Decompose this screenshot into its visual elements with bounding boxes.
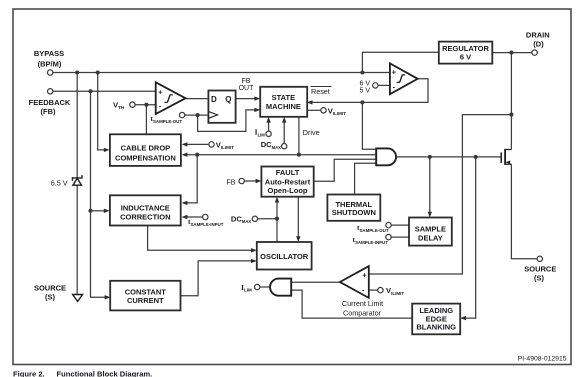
node reset branch [360, 100, 364, 104]
svg-text:6 V: 6 V [460, 52, 471, 61]
svg-text:FB: FB [226, 177, 235, 186]
wire Drive down from state machine [298, 116, 300, 154]
terminal Ilim at SM [266, 131, 271, 136]
terminal BYPASS [48, 70, 53, 75]
wires sample delay terminals [391, 225, 409, 237]
flip-flop labels and clock symbol [211, 95, 232, 104]
terminal t sample-input at sample delay [386, 234, 391, 239]
wire drain down to mosfet [510, 53, 512, 150]
svg-text:Reset: Reset [311, 87, 330, 96]
label FEEDBACK (FB) [29, 98, 71, 116]
svg-text:PI-4908-012915: PI-4908-012915 [518, 356, 567, 363]
block SAMPLE DELAY [409, 218, 452, 246]
arrow into oscillator left lower [251, 259, 257, 263]
svg-text:6 V: 6 V [359, 80, 370, 87]
arrow into CDC right drive [182, 153, 188, 157]
terminal 6V5V [373, 83, 378, 88]
svg-text:SHUTDOWN: SHUTDOWN [332, 208, 376, 217]
svg-text:CORRECTION: CORRECTION [120, 212, 170, 221]
wire gate line down to sample delay [429, 157, 431, 215]
arrow into IC right lower [182, 215, 188, 219]
wire gate line down to LEB [464, 157, 476, 318]
wire to regulator [362, 52, 438, 72]
wire FAULT out to AND in3 [314, 159, 376, 181]
label DRAIN (D) [526, 31, 550, 49]
label SOURCE (S) right [524, 265, 556, 283]
block LEADING EDGE BLANKING [412, 304, 460, 335]
svg-text:OUT: OUT [239, 85, 255, 92]
svg-text:BLANKING: BLANKING [416, 323, 456, 332]
wire FB into FAULT [244, 180, 258, 182]
wire Ilim up into state machine [268, 120, 270, 131]
wire left rail C (bypass to cable drop comp) [98, 73, 106, 150]
svg-text:Figure 2.: Figure 2. [13, 369, 45, 377]
arrow into sample delay top [428, 212, 432, 218]
wire rail B branch to inductance correction [91, 210, 107, 212]
arrow into CDC right Vilimit [182, 142, 188, 146]
node gate-sampledelay [428, 155, 432, 159]
wire reset net from comparator2 [310, 79, 428, 103]
wire 6V 5V into comparator2 [378, 84, 390, 86]
svg-text:Comparator: Comparator [343, 308, 382, 317]
svg-text:+: + [362, 270, 367, 279]
wire BYPASS rail [53, 72, 390, 74]
node bypass-regulator branch [360, 70, 364, 74]
svg-text:CURRENT: CURRENT [127, 296, 164, 305]
node gate-LEB [474, 155, 478, 159]
wire clock net to state machine lower input [198, 110, 257, 131]
arrow into CDC left [104, 148, 110, 152]
wire Vth input [135, 104, 156, 106]
terminal Vth [130, 102, 135, 107]
wire FEEDBACK to comparator [53, 90, 156, 92]
terminal circles [48, 50, 543, 293]
block THERMAL SHUTDOWN [327, 195, 380, 221]
arrowheads [104, 96, 466, 320]
svg-text:Drive: Drive [303, 128, 320, 137]
wire small AND output to Ilim terminal [260, 286, 270, 288]
svg-text:(FB): (FB) [41, 107, 56, 116]
arrow into oscillator top [296, 236, 300, 242]
wire comparator1 out to D input [186, 98, 209, 100]
op-amp comparator3 current limit (points left) [340, 266, 369, 298]
svg-text:Q: Q [225, 95, 231, 104]
hysteresis glyph comparator2 [397, 75, 406, 83]
arrow into IC right upper [182, 201, 188, 205]
label SOURCE (S) left [34, 284, 66, 302]
node drain-sense [509, 113, 513, 117]
arrow into LEB right [460, 316, 466, 320]
svg-text:D: D [211, 95, 217, 104]
op-amp comparator2 6V/5V (hysteresis) [390, 63, 418, 94]
label FB OUT [239, 78, 255, 92]
wire Vilimit into comparator3 [369, 289, 378, 291]
wire LEB out to small AND [291, 290, 412, 318]
AND gate main (4 input) [376, 148, 396, 165]
block STATE MACHINE [260, 87, 307, 117]
arrow into SM bottom DCmax [282, 117, 286, 123]
wire Q out to state machine [236, 98, 257, 100]
terminal FB at FAULT [239, 178, 244, 183]
terminal DCmax at oscillator [252, 216, 257, 221]
terminal Vilimit at comparator3 [378, 287, 383, 292]
node Vth branch [144, 103, 148, 107]
terminal SOURCE right [537, 256, 542, 261]
svg-text:CABLE DROP: CABLE DROP [121, 144, 171, 153]
wire left rail A (bypass to zener/source triangle) [76, 73, 78, 295]
svg-text:5 V: 5 V [359, 88, 370, 95]
wire thermal shutdown up to AND in4 [355, 163, 377, 194]
svg-text:6.5 V: 6.5 V [51, 178, 68, 187]
arrow into SM right (Reset) [307, 100, 313, 104]
node feedback-railB [88, 89, 92, 93]
svg-text:Open-Loop: Open-Loop [268, 186, 308, 195]
block CABLE DROP COMPENSATION [110, 134, 181, 166]
wire AND output / gate drive line [396, 156, 501, 158]
wire Vilimit into CDC [185, 143, 209, 145]
arrow into SM left lower [254, 108, 260, 112]
svg-text:SOURCE: SOURCE [34, 284, 66, 293]
wire regulator to drain [492, 52, 532, 54]
svg-text:(S): (S) [45, 292, 56, 301]
arrow into FAULT bottom [275, 197, 279, 203]
terminal Vilimit at CDC [209, 142, 214, 147]
wire drive branch down into inductance correction [185, 155, 197, 203]
hysteresis glyph comparator1 [164, 95, 172, 103]
wire IC output to oscillator in1 [148, 225, 254, 250]
arrow into CC left [105, 295, 111, 299]
transistor MOSFET output [501, 149, 511, 165]
wire DCmax up into state machine [283, 120, 285, 143]
wire t sample-input into IC [185, 216, 203, 218]
terminal FEEDBACK [48, 89, 53, 94]
node clock branch [196, 113, 200, 117]
block CONSTANT CURRENT [110, 281, 180, 311]
node railB-IC branch [88, 209, 92, 213]
arrow into FAULT left [256, 179, 262, 183]
arrow into oscillator left upper [251, 248, 257, 252]
op-amp comparator1 feedback (hysteresis) [156, 82, 186, 114]
terminal Ilim at small AND [255, 284, 260, 289]
wire reset branch down to AND gate in1 [362, 102, 376, 149]
svg-text:MACHINE: MACHINE [266, 102, 301, 111]
terminal Vilimit at SM [321, 108, 326, 113]
node bypass-railA [75, 70, 79, 74]
AND gate small (points left, Ilim) [270, 279, 291, 296]
svg-text:BYPASS: BYPASS [34, 49, 64, 58]
wire left rail B (feedback down) [91, 91, 106, 297]
svg-text:(BP/M): (BP/M) [38, 60, 62, 69]
svg-text:(D): (D) [533, 39, 544, 48]
node drain-regulator [509, 51, 513, 55]
svg-text:OSCILLATOR: OSCILLATOR [260, 252, 309, 261]
wire t sample-out down to CDC [145, 105, 147, 135]
arrow into IC left [104, 209, 110, 213]
wire current sense to comparator3 plus [369, 115, 512, 274]
wire comparator3 out to small AND in1 [291, 281, 340, 283]
node drive-IC branch [195, 153, 199, 157]
wire CC output to oscillator in2 [180, 261, 253, 296]
wire mosfet source to source terminal [511, 164, 537, 259]
terminal t sample-input at IC [203, 214, 208, 219]
svg-text:Auto-Restart: Auto-Restart [265, 177, 311, 186]
wire Vilimit from state machine [307, 109, 321, 111]
svg-text:FAULT: FAULT [276, 168, 300, 177]
svg-text:Functional Block Diagram.: Functional Block Diagram. [57, 369, 153, 377]
ground triangle SOURCE left [73, 295, 83, 302]
wire clock input [185, 114, 209, 116]
label BYPASS (BP/M) [34, 49, 64, 69]
wire drive net horizontal to AND in2 [185, 154, 376, 156]
zener diode 6.5V [72, 175, 82, 185]
node DCmax-oscillator [275, 217, 279, 221]
label Current Limit Comparator [342, 299, 383, 317]
terminal DCmax at SM [282, 144, 287, 149]
terminal t sample-out at sample delay [386, 222, 391, 227]
block INDUCTANCE CORRECTION [110, 195, 181, 225]
terminal clock [179, 112, 184, 117]
svg-text:(S): (S) [534, 273, 545, 282]
block FAULT auto-restart open-loop [261, 167, 313, 197]
terminal DRAIN [532, 50, 537, 55]
mosfet body arrow [505, 161, 510, 165]
svg-text:COMPENSATION: COMPENSATION [115, 154, 176, 163]
blocks [110, 42, 492, 335]
svg-text:+: + [392, 67, 397, 76]
svg-text:SAMPLE: SAMPLE [415, 225, 446, 234]
svg-text:INDUCTANCE: INDUCTANCE [121, 203, 170, 212]
svg-text:CONSTANT: CONSTANT [125, 287, 167, 296]
svg-text:+: + [158, 87, 163, 96]
node bypass-railC [96, 70, 100, 74]
flip-flop clock triangle [208, 112, 217, 119]
block OSCILLATOR [257, 242, 312, 270]
arrow into SM bottom Ilim [266, 117, 270, 123]
node drive junction [297, 153, 301, 157]
block REGULATOR 6V [439, 42, 493, 64]
svg-text:DELAY: DELAY [418, 234, 443, 243]
wire DCmax net to oscillator top and fault [258, 218, 277, 220]
arrow into SM left (FB OUT) [254, 96, 260, 100]
svg-text:Current Limit: Current Limit [342, 299, 383, 308]
svg-text:DRAIN: DRAIN [526, 31, 550, 40]
flip-flop DQ [208, 91, 235, 123]
wire fault down to oscillator top [297, 197, 299, 239]
block texts [115, 44, 489, 332]
